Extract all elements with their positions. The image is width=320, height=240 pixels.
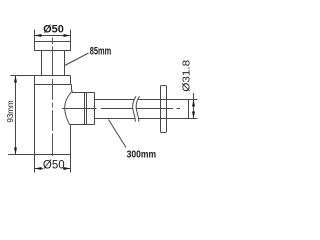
leader line 300mm [109,120,127,148]
dimension line Ø50 bottom right part [63,168,71,170]
svg-text:Ø31.8: Ø31.8 [181,59,192,92]
wall flange [161,86,167,133]
arrow right Ø50 bottom [64,167,71,170]
extension line left top [34,30,36,42]
body top line with extension [11,75,71,77]
dimension line Ø50 bottom left part [35,168,44,170]
arrow down 93mm [14,148,17,155]
pipe break squiggle right [136,96,139,121]
vertical centerline [52,38,54,157]
svg-text:85mm: 85mm [90,46,112,58]
arrow down Ø31.8 [192,112,195,119]
extension line right top [70,30,72,42]
nut ring line 2 [86,93,88,125]
inlet tube left edge [41,51,43,76]
body right edge nut collar [71,85,73,91]
arrow up 93mm [14,76,17,83]
leader line 85mm [65,53,89,66]
arrow left of Ø50 top [35,34,42,37]
inlet tube right edge [64,51,66,76]
svg-text:93mm: 93mm [6,100,15,123]
svg-text:Ø50: Ø50 [43,159,65,171]
pipe bottom line [95,118,198,120]
dimension line 93mm [15,76,17,155]
arrow up Ø31.8 [192,100,195,107]
pipe break squiggle left [133,96,136,121]
body right edge upper [70,76,72,85]
dome arc [65,91,73,125]
dome bottom line [70,124,95,126]
step to dome [72,90,73,92]
body shoulder joint line [35,84,72,86]
pipe end [188,100,190,119]
body right edge lower [70,125,72,155]
arrow left Ø50 bottom [35,167,42,170]
pipe centerline [62,108,180,110]
svg-text:Ø50: Ø50 [43,24,64,36]
nut ring line 1 [84,93,86,125]
dimension line Ø50 top [35,35,71,37]
arrow right of Ø50 top [64,34,71,37]
body left edge [34,76,36,155]
pipe break white band [133,96,140,121]
svg-text:300mm: 300mm [127,148,157,160]
body bottom line with extension [8,154,71,156]
extension line bottom right [70,155,72,173]
dimension line Ø31.8 [193,93,195,119]
inlet flange [35,42,71,51]
dome top line [72,92,95,94]
extension line bottom left [34,155,36,173]
pipe top line [95,99,198,101]
nut right edge [94,93,96,125]
